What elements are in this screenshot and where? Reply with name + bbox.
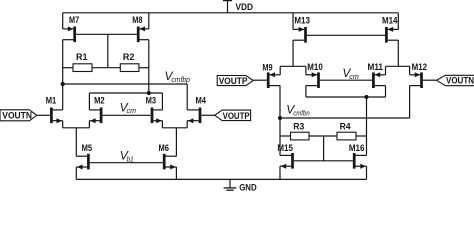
wire M2-M3 drains <box>89 92 162 94</box>
svg-text:VDD: VDD <box>236 2 254 12</box>
svg-text:cm: cm <box>349 72 359 81</box>
svg-text:cmfbn: cmfbn <box>293 108 310 117</box>
svg-text:M11: M11 <box>368 62 384 72</box>
wire R1 left lead <box>63 67 73 69</box>
wire R3-R4 middle lead <box>309 135 337 137</box>
svg-text:VOUTN: VOUTN <box>446 76 474 86</box>
transistor M7 <box>63 26 76 42</box>
wire R4 right lead <box>356 135 367 137</box>
svg-text:M13: M13 <box>294 15 310 25</box>
resistor R2 <box>120 64 139 72</box>
transistor M6 <box>163 154 177 170</box>
resistor R1 <box>73 64 92 72</box>
wire R3-R4 midpoint tap to M15-M16 gates <box>323 136 325 161</box>
resistor R3 <box>291 132 310 140</box>
wire M10-M11 drains <box>305 86 307 97</box>
wire gate tap to R1-R2 midpoint <box>107 34 109 67</box>
svg-text:VOUTP: VOUTP <box>219 76 248 86</box>
svg-text:M2: M2 <box>94 96 105 106</box>
transistor M15 <box>280 153 294 169</box>
svg-text:M1: M1 <box>46 96 57 106</box>
transistor M14 <box>385 27 398 43</box>
transistor M8 <box>137 26 149 42</box>
transistor M5 <box>76 154 89 170</box>
wire M13 drain to M9-M10 tail <box>292 40 294 66</box>
transistor M9 <box>267 72 280 88</box>
svg-text:b1: b1 <box>127 154 134 163</box>
svg-text:VOUTN: VOUTN <box>2 111 32 121</box>
node M10-M11 drain junction <box>364 95 368 99</box>
wire Vcmfbp horizontal to M4 drain <box>63 83 188 85</box>
svg-text:cm: cm <box>127 106 137 115</box>
wire M13-M14 gates <box>307 34 385 36</box>
svg-text:M9: M9 <box>262 63 272 73</box>
wire junction down to M16 drain <box>366 97 368 155</box>
node Vcmfbn junction <box>278 116 282 120</box>
svg-text:M5: M5 <box>82 143 93 153</box>
VDD rail (top supply wire) <box>63 12 399 14</box>
svg-text:M10: M10 <box>307 62 323 72</box>
wire M1-M2 sources tail <box>62 121 64 128</box>
transistor M16 <box>353 153 367 169</box>
wire M14 drain to M11-M12 tail <box>397 40 399 66</box>
wire M13 source to VDD rail <box>292 13 294 30</box>
wire M6 source to GND rail <box>175 167 177 179</box>
node M2-M3 drain junction <box>147 91 151 95</box>
wire M5-M6 gates (Vb1 node) <box>90 162 163 164</box>
wire tail down to M5 drain <box>75 128 77 156</box>
svg-text:M12: M12 <box>412 62 428 72</box>
wire M8 source to VDD rail <box>148 13 150 29</box>
port VOUTN (right input) <box>437 75 474 85</box>
GND rail (bottom wire) <box>76 178 366 180</box>
wire M15-M16 gates <box>294 160 353 162</box>
transistor M2 <box>89 108 102 124</box>
svg-text:R2: R2 <box>123 52 135 62</box>
transistor M13 <box>293 27 307 43</box>
svg-text:VOUTP: VOUTP <box>223 111 250 121</box>
wire M11 source up <box>385 66 387 75</box>
svg-text:M7: M7 <box>69 15 79 25</box>
wire R1-R2 middle lead <box>92 67 120 69</box>
wire M14 source to VDD rail <box>397 13 399 30</box>
ground symbol <box>229 179 231 187</box>
wire M7 drain down to M1 drain <box>62 40 64 110</box>
wire R3 left lead <box>280 135 291 137</box>
wire M7 source to VDD rail <box>62 13 64 29</box>
wire M2-M3 gates (Vcm node) <box>103 114 151 116</box>
svg-text:M15: M15 <box>277 143 293 153</box>
wire M8 drain down to M2-M3 drain wire <box>148 40 150 93</box>
transistor M11 <box>372 72 385 88</box>
resistor R4 <box>337 132 356 140</box>
transistor M12 <box>410 72 423 88</box>
wire M7-M8 gates <box>76 33 137 35</box>
VDD supply symbol <box>227 0 229 13</box>
wire M9 drain down to M15 drain <box>279 86 281 156</box>
wire M9 source up <box>279 66 281 75</box>
svg-text:M8: M8 <box>132 15 142 25</box>
svg-text:M16: M16 <box>349 143 365 153</box>
wire R2 right lead <box>139 67 149 69</box>
wire M15 source to GND rail <box>279 166 281 179</box>
wire VOUTP to M9 gate <box>253 79 267 81</box>
wire VOUTN to M1 gate <box>37 114 50 116</box>
wire M12 gate to VOUTN port <box>423 79 437 81</box>
svg-text:M3: M3 <box>146 96 157 106</box>
transistor M4 <box>187 108 201 124</box>
wire Vcmfbn horizontal to M12 drain <box>280 117 410 119</box>
transistor M10 <box>306 72 320 88</box>
svg-text:R3: R3 <box>293 121 304 131</box>
wire M10 source up <box>305 66 307 75</box>
svg-text:M14: M14 <box>382 15 398 25</box>
wire M16 source to GND rail <box>366 166 368 179</box>
wire M3-M4 sources tail <box>161 121 163 128</box>
svg-text:R1: R1 <box>76 52 88 62</box>
wire M12 source up <box>409 66 411 75</box>
port VOUTP (right input) <box>217 76 253 86</box>
node Vcmfbp junction <box>61 82 65 86</box>
port VOUTP (left block output tap) <box>215 110 251 121</box>
svg-text:M4: M4 <box>196 96 207 106</box>
svg-text:M6: M6 <box>159 143 170 153</box>
svg-text:cmfbp: cmfbp <box>171 75 190 84</box>
svg-text:GND: GND <box>239 183 257 191</box>
transistor M1 <box>50 108 63 124</box>
wire M10-M11 gates (Vcm node) <box>320 79 372 81</box>
svg-text:R4: R4 <box>340 121 351 131</box>
wire tail down to M6 drain <box>175 128 177 156</box>
wire M5 source to GND rail <box>75 167 77 179</box>
port VOUTN (left input) <box>0 110 37 121</box>
transistor M3 <box>151 108 163 124</box>
wire M4 gate to VOUTP port <box>201 114 214 116</box>
